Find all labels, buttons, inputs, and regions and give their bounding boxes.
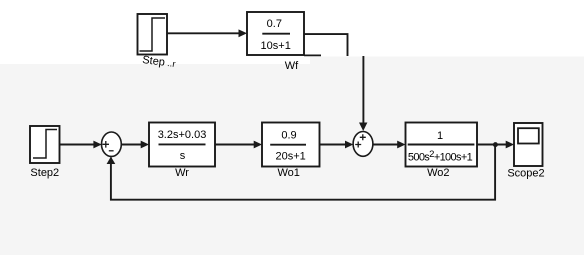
svg-text:Step2: Step2 [30,167,59,179]
svg-text:..r: ..r [167,58,176,69]
svg-text:10s+1: 10s+1 [261,40,291,52]
svg-text:Wo2: Wo2 [427,167,449,179]
svg-text:20s+1: 20s+1 [275,150,305,162]
svg-text:Wr: Wr [175,167,189,179]
svg-text:s: s [180,150,186,162]
svg-text:500s2+100s+1: 500s2+100s+1 [408,149,473,164]
svg-text:3.2s+0.03: 3.2s+0.03 [158,129,207,141]
svg-text:Wo1: Wo1 [277,167,299,179]
svg-text:Wf: Wf [285,60,299,72]
svg-text:0.7: 0.7 [267,18,282,30]
svg-text:1: 1 [437,130,443,142]
svg-text:Scope2: Scope2 [507,167,544,179]
svg-text:0.9: 0.9 [281,130,296,142]
